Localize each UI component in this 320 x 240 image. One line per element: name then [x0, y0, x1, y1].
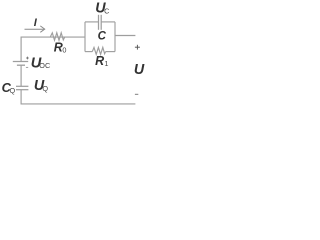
svg-text:C: C	[104, 6, 109, 15]
svg-text:Q: Q	[10, 86, 16, 95]
svg-text:Q: Q	[42, 84, 48, 93]
svg-text:I: I	[34, 17, 38, 29]
svg-text:C: C	[98, 31, 107, 43]
svg-text:OC: OC	[39, 61, 50, 70]
svg-text:R: R	[95, 54, 104, 68]
svg-text:0: 0	[62, 45, 66, 54]
svg-text:U: U	[134, 62, 145, 78]
svg-text:1: 1	[104, 59, 108, 68]
